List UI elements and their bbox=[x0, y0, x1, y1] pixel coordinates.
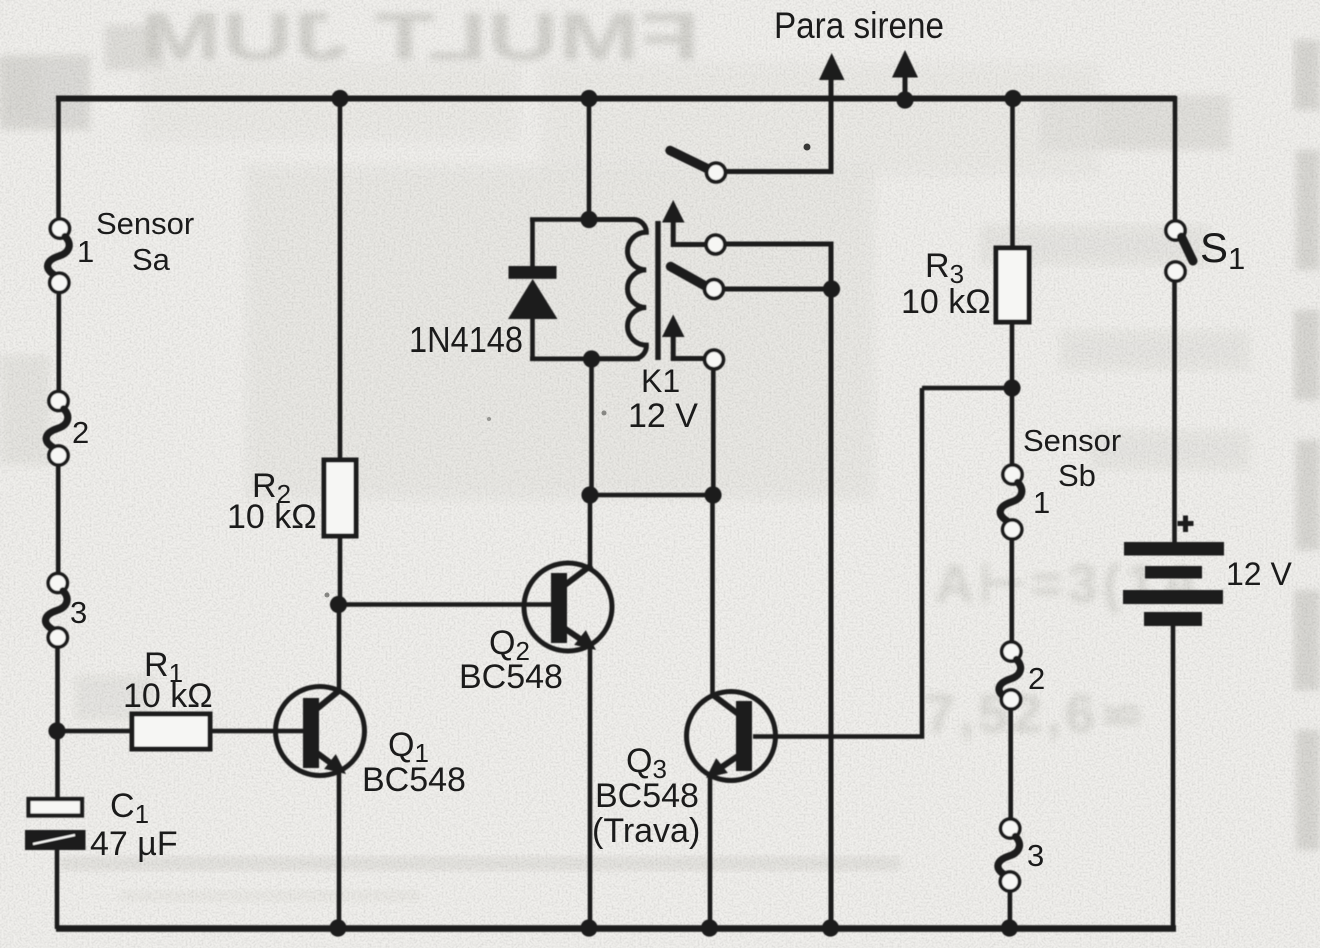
wire R2 top lead bbox=[338, 99, 343, 462]
wire right vertical top bbox=[1173, 96, 1178, 222]
relay contact terminal 1 bbox=[707, 163, 726, 182]
svg-text:3: 3 bbox=[70, 595, 87, 630]
wire Q2 collector bbox=[588, 495, 593, 570]
node junction bottom rail Sb bbox=[1001, 919, 1018, 936]
scan tone patch upper middle bbox=[245, 165, 875, 500]
svg-text:12 V: 12 V bbox=[1226, 556, 1292, 592]
battery B1 12V bbox=[1123, 542, 1224, 626]
node junction R2 / Q1 collector / Q2 base bbox=[330, 596, 347, 613]
wire bottom rail bbox=[56, 925, 1176, 932]
resistor R3 bbox=[996, 248, 1029, 322]
svg-text:10 kΩ: 10 kΩ bbox=[123, 677, 213, 715]
wire coil bottom to y495 bbox=[589, 359, 594, 495]
node junction contacts right bbox=[823, 280, 840, 297]
svg-text:1: 1 bbox=[77, 234, 94, 269]
wire R1 left lead bbox=[57, 729, 133, 734]
relay contact terminal 2 bbox=[706, 235, 725, 254]
switch S1 bbox=[1166, 221, 1193, 281]
wire Q3 base to R3 node bbox=[753, 388, 922, 737]
transistor Q2 bbox=[524, 563, 612, 651]
svg-text:BC548: BC548 bbox=[595, 777, 699, 815]
wire cross link y495 bbox=[590, 493, 713, 498]
scan bleed left mid bbox=[0, 355, 50, 465]
transistor Q1 bbox=[276, 687, 365, 776]
wire coil top lead bbox=[587, 99, 592, 220]
wire contact2 right bbox=[725, 244, 831, 289]
wire Q3 emitter bbox=[708, 775, 713, 929]
wire R3 top lead bbox=[1010, 99, 1015, 250]
node junction R3 / Q3 base bbox=[1003, 379, 1020, 396]
relay K1 armature bbox=[655, 221, 660, 360]
wire battery to bottom rail bbox=[1171, 626, 1176, 929]
svg-text:Sb: Sb bbox=[1058, 458, 1096, 493]
relay arrow lower bbox=[662, 315, 705, 359]
wire R3 bottom lead bbox=[1010, 322, 1015, 466]
node junction bottom rail Q2 bbox=[580, 919, 597, 936]
svg-text:K1: K1 bbox=[641, 363, 680, 399]
svg-text:BC548: BC548 bbox=[362, 761, 466, 799]
wire diode bottom lead bbox=[530, 317, 640, 359]
relay contact terminal 3 bbox=[705, 280, 724, 299]
wire contacts junction to bottom rail bbox=[829, 289, 834, 929]
resistor R2 bbox=[324, 460, 356, 536]
sensor Sa contact 1 bbox=[48, 219, 70, 292]
wire Q1 emitter bbox=[337, 771, 342, 929]
svg-text:1N4148: 1N4148 bbox=[409, 319, 523, 360]
sensor Sb contact 2 bbox=[999, 642, 1021, 709]
svg-text:(Trava): (Trava) bbox=[592, 812, 700, 850]
svg-text:3: 3 bbox=[1027, 838, 1044, 873]
resistor R1 bbox=[132, 714, 210, 749]
capacitor C1 bbox=[25, 799, 86, 850]
svg-text:Sa: Sa bbox=[132, 242, 171, 277]
node junction top rail / coil branch bbox=[580, 90, 597, 107]
wire Q2 emitter bbox=[588, 646, 593, 929]
node junction diode-coil top bbox=[580, 211, 597, 228]
wire Q2 base bbox=[339, 602, 554, 607]
svg-text:10 kΩ: 10 kΩ bbox=[901, 283, 991, 321]
sensor Sb contact 1 bbox=[1000, 465, 1022, 539]
wire Sb 2-3 bbox=[1008, 709, 1013, 821]
svg-text:BC548: BC548 bbox=[459, 658, 563, 696]
wire C1 bottom lead bbox=[55, 850, 60, 929]
wire Sb bottom lead bbox=[1008, 891, 1013, 930]
transistor Q3 bbox=[687, 692, 776, 781]
diode 1N4148 bbox=[508, 266, 558, 319]
wire contact4 down bbox=[711, 369, 716, 495]
node junction top rail R3 bbox=[1004, 90, 1021, 107]
relay contact blade middle bbox=[671, 267, 705, 286]
svg-text:Sensor: Sensor bbox=[96, 206, 194, 241]
arrow para sirene right bbox=[892, 50, 918, 100]
wire R3 node left bbox=[922, 386, 1012, 391]
wire left vertical top segment bbox=[56, 96, 61, 219]
relay arrow upper bbox=[662, 200, 707, 245]
scan bleed right margin strip bbox=[1294, 40, 1320, 850]
wire left vertical to C1 bbox=[55, 647, 60, 800]
relay contact terminal 4 bottom bbox=[705, 350, 724, 369]
svg-text:Sensor: Sensor bbox=[1023, 423, 1121, 458]
sensor Sb contact 3 bbox=[998, 819, 1020, 891]
wire S1 to battery bbox=[1172, 281, 1177, 543]
relay K1 coil bbox=[592, 220, 646, 359]
node junction left / R1 bbox=[48, 722, 65, 739]
wire Sa 1-2 bbox=[56, 292, 61, 392]
svg-text:2: 2 bbox=[1028, 661, 1045, 696]
node junction top rail sirene arrow right bbox=[896, 91, 913, 108]
wire Sa 2-3 bbox=[56, 465, 61, 575]
node junction bottom rail x831 bbox=[822, 919, 839, 936]
svg-text:2: 2 bbox=[72, 415, 89, 450]
relay contact blade top bbox=[670, 151, 706, 169]
wire top rail bbox=[56, 96, 1176, 102]
node junction top rail / R2 bbox=[331, 90, 348, 107]
sensor Sa contact 2 bbox=[46, 391, 68, 465]
wire Sb 1-2 bbox=[1009, 539, 1014, 644]
node junction bottom rail Q1 bbox=[329, 919, 346, 936]
node junction diode-coil bottom bbox=[583, 350, 600, 367]
wire Q3 collector bbox=[710, 495, 715, 696]
arrow para sirene left bbox=[819, 53, 845, 80]
wire R2 bottom lead bbox=[338, 536, 343, 605]
svg-text:10 kΩ: 10 kΩ bbox=[227, 498, 317, 536]
node junction bottom rail Q3 bbox=[701, 919, 718, 936]
battery plus sign bbox=[1178, 516, 1194, 533]
wire Q1 collector bbox=[337, 605, 342, 691]
sensor Sa contact 3 bbox=[46, 573, 68, 647]
scan bleed bottom strip bbox=[60, 856, 900, 871]
svg-text:12 V: 12 V bbox=[628, 397, 698, 435]
node junction x590 y495 bbox=[581, 486, 598, 503]
wire R1 right lead to Q1 base bbox=[210, 729, 305, 734]
scan speckle ink dot bbox=[804, 144, 811, 151]
svg-text:47 µF: 47 µF bbox=[90, 825, 178, 863]
wire diode top branch bbox=[530, 220, 592, 268]
wire contact1 to sirene arrow bbox=[726, 80, 831, 172]
node junction x713 y495 bbox=[704, 486, 721, 503]
scan bleed blob top right bbox=[1040, 95, 1230, 150]
wire contact3 right bbox=[724, 287, 831, 292]
svg-text:1: 1 bbox=[1033, 485, 1050, 520]
svg-text:Para sirene: Para sirene bbox=[774, 5, 944, 46]
